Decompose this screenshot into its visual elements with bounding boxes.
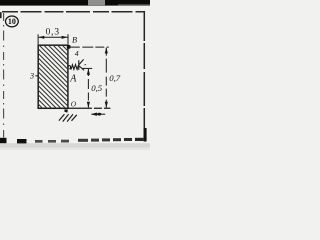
dashed line from B to right bbox=[71, 46, 109, 48]
0,5 vertical dimension line bbox=[87, 69, 89, 108]
pivot dot under corner bbox=[64, 109, 68, 112]
svg-text:B: B bbox=[72, 36, 77, 45]
svg-text:0,7: 0,7 bbox=[109, 73, 121, 83]
svg-text:3: 3 bbox=[29, 72, 34, 81]
top-left corner tick bbox=[0, 12, 2, 18]
0,7 vertical dimension line bbox=[105, 48, 107, 108]
top black scan band bbox=[0, 0, 150, 6]
svg-text:0,3: 0,3 bbox=[46, 28, 60, 38]
hatched block (wall), item 3 bbox=[0, 44, 132, 110]
frame top border (dashed) bbox=[2, 11, 144, 13]
svg-text:10: 10 bbox=[8, 17, 16, 26]
small left arrow below baseline bbox=[91, 113, 105, 115]
frame left border (chain line) bbox=[3, 13, 5, 138]
svg-text:4: 4 bbox=[75, 49, 79, 58]
K-shaped mark right of squiggle bbox=[78, 60, 80, 70]
bottom border dashes (left thick) bbox=[0, 138, 7, 143]
ground baseline bbox=[68, 107, 111, 109]
extension line at A level bbox=[82, 67, 92, 69]
bottom border dashes (right) bbox=[78, 139, 88, 142]
spring squiggle at A on wall edge bbox=[68, 65, 79, 70]
svg-text:O: O bbox=[71, 100, 77, 109]
point B dot bbox=[67, 45, 71, 49]
svg-text:A: A bbox=[69, 74, 77, 85]
frame right border bbox=[143, 11, 145, 139]
paper background bbox=[0, 0, 150, 150]
right border lower dark bar bbox=[144, 128, 147, 142]
problem number badge (10) bbox=[5, 16, 18, 27]
support hatching bbox=[59, 114, 77, 121]
bottom gray scan strip bbox=[0, 143, 150, 150]
svg-text:0,5: 0,5 bbox=[91, 83, 103, 93]
